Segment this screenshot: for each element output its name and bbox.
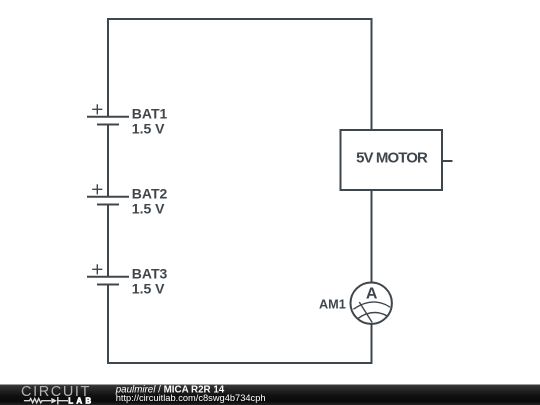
svg-text:1.5 V: 1.5 V [132,200,165,216]
wire right rail top (to motor) [371,18,373,130]
svg-text:LAB: LAB [68,396,94,405]
wire top [108,18,372,20]
logo diode [51,397,58,404]
svg-text:BAT2: BAT2 [132,185,168,201]
wire left rail segment 3 [107,205,109,277]
wire bottom [107,362,372,364]
battery BAT2 plates [87,197,129,205]
svg-text:5V MOTOR: 5V MOTOR [356,149,428,166]
ammeter AM1 needle [359,302,372,322]
svg-text:1.5 V: 1.5 V [132,280,165,296]
svg-text:A: A [366,286,378,303]
battery BAT1 plates [87,117,129,125]
ammeter AM1 meter scale arcs [353,302,390,319]
svg-text:BAT1: BAT1 [132,105,168,121]
battery BAT2 plus polarity mark [92,184,102,194]
wire left rail segment 1 [107,18,109,117]
svg-text:BAT3: BAT3 [132,265,168,281]
svg-text:http://circuitlab.com/c8swg4b7: http://circuitlab.com/c8swg4b734cph [116,393,266,403]
battery BAT3 plus polarity mark [92,264,102,274]
logo resistor zigzag wire [24,399,68,403]
wire left rail segment 4 [107,285,109,365]
wire left rail segment 2 [107,125,109,197]
motor right stub terminal [442,160,453,162]
svg-text:1.5 V: 1.5 V [132,120,165,136]
wire motor to ammeter [371,190,373,283]
battery BAT3 plates [87,277,129,285]
ammeter AM1 body circle [351,283,392,324]
wire ammeter to bottom [371,324,373,364]
motor box M1 [341,130,443,190]
svg-text:AM1: AM1 [319,297,346,311]
battery BAT1 plus polarity mark [92,104,102,114]
